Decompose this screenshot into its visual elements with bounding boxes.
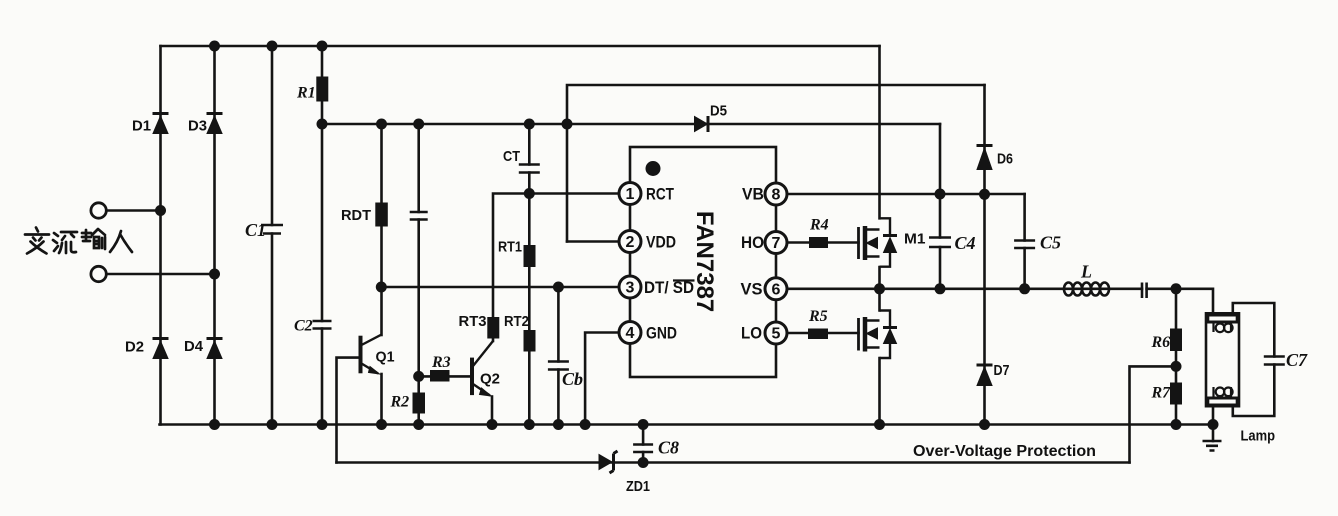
capacitor C1 bbox=[261, 225, 283, 234]
wire D6/D7 column bbox=[983, 85, 986, 425]
svg-text:HO: HO bbox=[741, 233, 764, 252]
node VS / half-bridge bbox=[874, 283, 885, 294]
svg-text:ZD1: ZD1 bbox=[626, 478, 650, 495]
wire VDD pin2 stub bbox=[567, 240, 620, 243]
wire VS pin6 line bbox=[787, 289, 1214, 314]
node top bus / R1 bbox=[317, 41, 328, 52]
node VDD bus / CDT bbox=[413, 119, 424, 130]
wire CDT / R2 column bbox=[417, 124, 420, 425]
pin 1 marker dot bbox=[646, 161, 661, 176]
wire GND pin4 line bbox=[585, 333, 619, 425]
wire Q2 emitter drop bbox=[491, 397, 494, 425]
wire Q1 emitter drop bbox=[380, 374, 383, 425]
node VDD bus / riser bbox=[562, 119, 573, 130]
AC input terminal top bbox=[91, 203, 106, 218]
node bus / D7 bbox=[979, 419, 990, 430]
node VDD bus / RDT bbox=[376, 119, 387, 130]
svg-text:5: 5 bbox=[772, 326, 781, 343]
wire R6/R7 column bbox=[1175, 289, 1178, 425]
wire RCT pin1 line bbox=[529, 192, 619, 195]
resistor RDT bbox=[376, 203, 388, 226]
node bus / C8 bbox=[638, 419, 649, 430]
svg-text:CT: CT bbox=[503, 148, 520, 165]
wire C1 column bbox=[271, 46, 274, 425]
svg-text:Lamp: Lamp bbox=[1241, 429, 1276, 445]
wire Q1 collector riser bbox=[380, 287, 383, 335]
pin 7 HO bbox=[765, 232, 787, 254]
node AC live bbox=[155, 205, 166, 216]
node VB / C4 / D5 bbox=[935, 189, 946, 200]
svg-text:6: 6 bbox=[772, 281, 781, 298]
capacitor CDT bbox=[410, 212, 428, 220]
wire bridge right column D3/D4 bbox=[213, 46, 216, 425]
svg-text:D2: D2 bbox=[125, 339, 144, 356]
capacitor CT bbox=[519, 165, 540, 173]
node R6 / R7 tap bbox=[1171, 361, 1182, 372]
node bus / RT2 bbox=[524, 419, 535, 430]
wire HO pin7 line bbox=[787, 241, 859, 244]
node bus / M2 source bbox=[874, 419, 885, 430]
svg-text:VS: VS bbox=[741, 279, 763, 298]
diode D7 bbox=[977, 365, 993, 386]
pin 8 VB bbox=[765, 183, 787, 205]
svg-text:C2: C2 bbox=[294, 318, 313, 335]
wire VDD riser to pin 2 bbox=[567, 85, 985, 242]
svg-text:GND: GND bbox=[646, 324, 677, 343]
wire Cb column bbox=[557, 287, 560, 425]
lamp body bbox=[1206, 313, 1239, 406]
wire ground bus bbox=[160, 423, 1214, 426]
resistor RT1 bbox=[524, 246, 535, 267]
node bus / R2 bbox=[413, 419, 424, 430]
node bus / Q2 emitter bbox=[487, 419, 498, 430]
svg-text:D7: D7 bbox=[994, 362, 1010, 379]
wire over-voltage tap riser bbox=[1130, 366, 1177, 462]
node top bus / D3 bbox=[209, 41, 220, 52]
wire AC live input bbox=[107, 209, 161, 212]
AC input terminal bottom bbox=[91, 266, 106, 281]
svg-text:3: 3 bbox=[626, 280, 635, 297]
capacitor C2 bbox=[313, 321, 332, 329]
capacitor C5 bbox=[1014, 241, 1035, 249]
diode D4 bbox=[207, 339, 223, 359]
node OVP / C8 bbox=[638, 457, 649, 468]
svg-text:D5: D5 bbox=[710, 103, 727, 120]
svg-text:7: 7 bbox=[772, 235, 781, 252]
svg-text:8: 8 bbox=[772, 187, 781, 204]
node bus / GND pin wire bbox=[580, 419, 591, 430]
diode D5 bbox=[695, 116, 709, 132]
svg-text:2: 2 bbox=[626, 234, 635, 251]
wire over-voltage feedback line bbox=[337, 461, 1130, 464]
pin 3 DT/SD bbox=[619, 276, 641, 298]
svg-text:M1: M1 bbox=[904, 231, 926, 248]
svg-text:D3: D3 bbox=[188, 118, 207, 135]
node DT/SD / RDT / Q1 collector bbox=[376, 282, 387, 293]
wire DT/SD pin3 line bbox=[381, 286, 619, 289]
wire RDT column bbox=[380, 124, 383, 287]
diode D6 bbox=[977, 146, 993, 170]
node R2 / R3 / CDT bbox=[413, 371, 424, 382]
resistor R3 bbox=[431, 371, 450, 382]
pin 1 RCT bbox=[619, 183, 641, 205]
wire C5 branch bbox=[1023, 194, 1026, 289]
resistor R5 bbox=[809, 329, 828, 339]
svg-text:FAN7387: FAN7387 bbox=[691, 211, 718, 312]
node VDD bus / R1 bbox=[317, 119, 328, 130]
pin 6 VS bbox=[765, 278, 787, 300]
wire C7 parallel loop bbox=[1233, 303, 1275, 416]
wire bridge left column D1/D2 bbox=[159, 46, 162, 425]
resistor R4 bbox=[810, 238, 828, 248]
svg-text:RDT: RDT bbox=[341, 207, 371, 224]
wire RT3 branch bbox=[493, 194, 529, 342]
zener diode ZD1 bbox=[599, 451, 618, 473]
inductor L bbox=[1064, 283, 1109, 296]
node bus / Cb bbox=[553, 419, 564, 430]
transistor Q1 bbox=[361, 335, 382, 375]
node VS / C4 bbox=[935, 283, 946, 294]
capacitor Cb bbox=[548, 362, 569, 370]
svg-text:C5: C5 bbox=[1040, 233, 1061, 253]
node VDD bus / CT bbox=[524, 119, 535, 130]
resistor RT3 bbox=[488, 318, 499, 339]
capacitor C7 bbox=[1264, 357, 1285, 365]
wire C4 column bbox=[939, 194, 942, 289]
svg-text:Over-Voltage Protection: Over-Voltage Protection bbox=[913, 443, 1096, 460]
wire LO pin5 line bbox=[787, 332, 859, 335]
node bus / C2 bbox=[317, 419, 328, 430]
svg-text:LO: LO bbox=[741, 324, 762, 343]
wire AC neutral input bbox=[107, 273, 215, 276]
svg-text:R3: R3 bbox=[431, 354, 451, 371]
svg-text:R7: R7 bbox=[1151, 385, 1172, 402]
resistor R6 bbox=[1171, 329, 1182, 351]
svg-text:RCT: RCT bbox=[646, 185, 674, 204]
resistor RT2 bbox=[524, 331, 535, 352]
svg-text:Q2: Q2 bbox=[480, 371, 500, 388]
wire D5 drop to VB bbox=[939, 124, 942, 194]
svg-text:R2: R2 bbox=[390, 394, 410, 411]
node bus / R7 bbox=[1171, 419, 1182, 430]
node VS / R6 bbox=[1171, 283, 1182, 294]
capacitor C4 bbox=[929, 238, 951, 248]
pin 4 GND bbox=[619, 322, 641, 344]
diode D3 bbox=[207, 114, 223, 134]
node bus / Q1 emitter bbox=[376, 419, 387, 430]
diode D2 bbox=[153, 339, 169, 359]
wire C8 column bbox=[642, 425, 645, 463]
capacitor C8 bbox=[633, 445, 653, 453]
svg-text:R4: R4 bbox=[809, 217, 829, 234]
svg-text:RT3: RT3 bbox=[459, 314, 487, 330]
node VB / D6 bbox=[979, 189, 990, 200]
svg-text:Cb: Cb bbox=[562, 369, 583, 389]
label AC input (Chinese) hand-drawn glyphs bbox=[25, 228, 132, 254]
transistor Q2 bbox=[472, 341, 493, 396]
svg-text:D6: D6 bbox=[997, 151, 1013, 168]
resistor R7 bbox=[1171, 383, 1182, 404]
svg-text:D1: D1 bbox=[132, 118, 151, 135]
node bus / lamp bbox=[1208, 419, 1219, 430]
svg-text:1: 1 bbox=[626, 186, 635, 203]
diode D1 bbox=[153, 114, 169, 134]
mosfet M2 bbox=[859, 311, 898, 359]
pin 5 LO bbox=[765, 322, 787, 344]
svg-text:VDD: VDD bbox=[646, 233, 676, 252]
ground symbol bbox=[1203, 441, 1222, 451]
node AC neutral bbox=[209, 269, 220, 280]
svg-text:R6: R6 bbox=[1151, 334, 1171, 351]
wire lamp bottom lead bbox=[1212, 406, 1215, 441]
op-amp U1 FAN7387 IC body bbox=[630, 147, 776, 377]
svg-text:C4: C4 bbox=[955, 233, 976, 253]
svg-text:R1: R1 bbox=[296, 85, 316, 102]
node top bus / C1 bbox=[267, 41, 278, 52]
wire top bus bbox=[161, 45, 880, 48]
wire R1/C2 column bbox=[321, 46, 324, 425]
pin 2 VDD bbox=[619, 231, 641, 253]
wire half-bridge drain column bbox=[878, 46, 881, 425]
wire R3 base line bbox=[419, 375, 471, 378]
svg-text:VB: VB bbox=[742, 185, 764, 204]
svg-text:D4: D4 bbox=[184, 338, 204, 355]
svg-text:R5: R5 bbox=[808, 308, 828, 325]
svg-text:C7: C7 bbox=[1286, 350, 1308, 370]
wire CT / RT1 / RT2 column bbox=[528, 124, 531, 425]
wire Q1 base feedback drop bbox=[337, 358, 360, 463]
node bus / D4 bbox=[209, 419, 220, 430]
svg-text:L: L bbox=[1080, 262, 1092, 282]
wire VDD mid bus bbox=[322, 123, 940, 126]
svg-text:C8: C8 bbox=[658, 438, 679, 458]
resistor R2 bbox=[413, 393, 425, 413]
mosfet M1 bbox=[859, 218, 898, 266]
svg-text:4: 4 bbox=[626, 325, 635, 342]
node VS / C5 bbox=[1019, 283, 1030, 294]
capacitor series resonant bbox=[1142, 283, 1147, 299]
node bus / C1 bbox=[267, 419, 278, 430]
svg-text:Q1: Q1 bbox=[376, 349, 395, 366]
svg-text:RT1: RT1 bbox=[498, 240, 522, 256]
node DT/SD / Cb bbox=[553, 282, 564, 293]
resistor R1 bbox=[317, 77, 328, 101]
svg-text:C1: C1 bbox=[245, 220, 266, 240]
label DT/SD with overline bbox=[644, 278, 695, 297]
wire VB pin8 line bbox=[787, 193, 1025, 196]
svg-text:RT2: RT2 bbox=[504, 314, 529, 330]
node RCT / CT / RT1 bbox=[524, 188, 535, 199]
